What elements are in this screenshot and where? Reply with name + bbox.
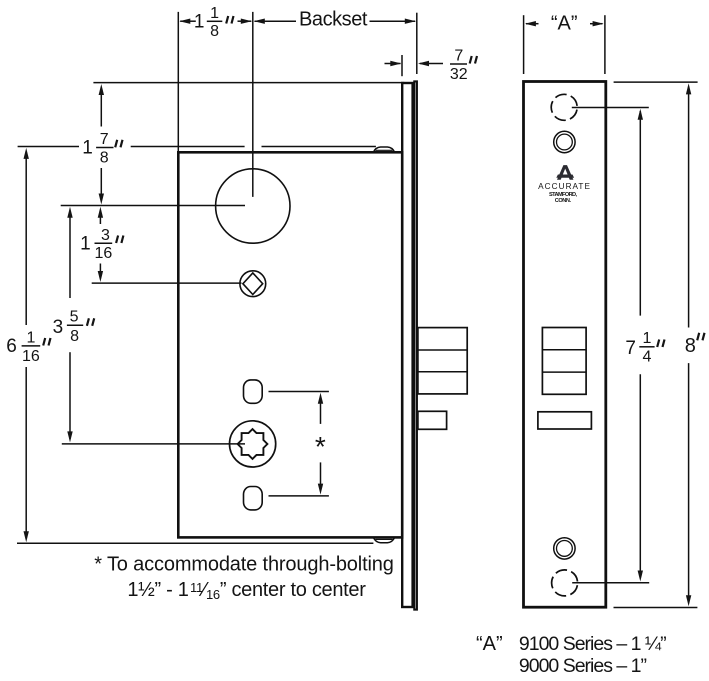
bottom mounting screw (broken circle) [552,570,578,596]
spindle hub circle [240,271,266,297]
svg-text:8: 8 [210,23,219,40]
thumbturn centerline leader [62,443,245,445]
svg-text:Backset: Backset [299,8,368,30]
svg-text:* To accommodate through-bolti: * To accommodate through-bolting [94,554,393,576]
6 1/16 dimension line upper segment [25,152,27,326]
dim text 7 1/4 inch mark [657,340,664,348]
8in top reference [614,81,698,83]
7/32 right arrow [418,61,429,66]
deadbolt front band line 2 [542,371,586,373]
dim text 7/32 inch mark [470,56,477,64]
3 5/8 dimension line lower segment [69,352,71,439]
svg-text:9100 Series – 1 ¼”: 9100 Series – 1 ¼” [519,633,666,655]
svg-text:5: 5 [70,309,79,326]
3 5/8 down arrow [67,431,72,442]
8 up arrow [686,83,691,94]
thumbturn hub circle [230,421,276,467]
1 7/8 fraction bar [96,147,113,149]
bottom cover line [17,542,373,544]
3 5/8 up arrow [67,207,72,218]
svg-text:CONN.: CONN. [555,198,572,204]
svg-text:6: 6 [6,336,17,357]
svg-text:8: 8 [70,328,79,345]
dim text 1 7/8 inch mark [115,140,122,148]
8in bottom reference [614,607,698,609]
upper oval leader [269,391,329,393]
upper through-bolt oval [244,380,263,403]
top screw dome chord [375,149,392,151]
1 1/8 fraction bar [207,20,223,22]
svg-text:16: 16 [22,348,40,365]
top cover line mid segment [131,146,245,148]
dim text 3 5/8 inch mark [87,318,94,326]
8-point star hub (two overlapped squares) [238,429,268,459]
7/32 extension tick outer [416,13,418,74]
top cylinder screw inner circle [557,134,573,150]
spindle square (diamond) [243,273,263,295]
asterisk up arrow [318,393,323,404]
backset centerline [252,12,254,197]
cylinder centerline leader [61,205,245,207]
backset right arrow [405,19,416,24]
6 1/16 up arrow [24,148,29,159]
A dimension right arrow shaft [590,23,603,25]
top cylinder screw outer circle [554,131,575,152]
top cover line right segment [262,146,376,148]
dim text 6 1/16 inch mark [43,338,50,346]
svg-text:1: 1 [210,5,219,22]
8 down arrow [686,595,691,606]
dim text 8 inch mark [697,333,704,341]
auxiliary latch (front view) [538,412,592,429]
svg-text:“A”: “A” [551,12,578,34]
7/32 fraction bar [450,63,467,65]
svg-text:1: 1 [642,330,651,347]
1 1/8 dimension line right shaft [238,20,252,22]
dim text 1 1/8 inch mark [226,16,233,24]
7 1/4 dimension line upper segment [639,111,641,316]
deadbolt edge band line 2 [418,371,467,373]
svg-text:8: 8 [685,335,696,357]
backset left arrow [254,19,265,24]
svg-text:“A”: “A” [476,633,503,655]
bottom screw dome [373,538,394,543]
svg-text:1½” - 1 11⁄16” center to cente: 1½” - 1 11⁄16” center to center [127,579,366,602]
svg-text:1: 1 [80,233,91,254]
7 1/4 dimension line lower segment [639,374,641,577]
1 3/16 up arrow shaft [99,211,101,225]
lock front inner strip [402,83,412,607]
svg-text:7: 7 [625,338,636,359]
3 5/8 fraction bar [67,324,83,326]
7 1/4 down arrow [638,571,643,582]
6 1/16 fraction bar [22,345,41,347]
bottom screw leader [572,582,649,584]
case left edge extension line [177,12,179,152]
A left arrow [525,21,536,26]
faceplate plate [524,82,606,608]
asterisk dimension lower shaft [320,462,322,490]
7/32 left arrow [390,61,401,66]
1 7/8 down arrow shaft [100,168,102,201]
deadbolt (front view) [542,328,586,395]
top screw leader [572,107,649,109]
deadbolt (edge view) [418,328,467,394]
1 3/16 up arrow [98,207,103,218]
case body rectangle [178,152,402,537]
backset dimension left shaft [255,20,297,22]
bottom cylinder screw outer circle [554,538,575,559]
1 7/8 down arrow [99,194,104,205]
1 1/8 left arrow [179,19,190,24]
7 1/4 fraction bar [639,346,654,348]
svg-text:32: 32 [450,66,468,83]
svg-text:4: 4 [642,348,651,365]
top screw dome [373,147,394,152]
top cover line left segment [18,146,79,148]
logo A mark crossbar [556,175,574,178]
auxiliary latch (edge view) [418,411,447,429]
7/32 right arrow shaft [420,63,443,65]
svg-text:9000 Series – 1”: 9000 Series – 1” [519,655,647,677]
7 1/4 up arrow [638,109,643,120]
8 dimension line upper segment [688,87,690,328]
7/32 left arrow shaft [385,63,401,65]
deadbolt front band line 1 [542,349,586,351]
svg-text:8: 8 [100,149,109,166]
1 7/8 up arrow shaft [100,89,102,127]
8 dimension line lower segment [688,363,690,602]
6 1/16 dimension line lower segment [25,367,27,539]
bottom cylinder screw inner circle [557,541,573,557]
spindle centerline leader [92,282,242,284]
dim text 1 3/16 inch mark [116,236,123,244]
faceplate outer strip (edge view) [414,81,417,609]
7/32 extension tick inner [401,55,403,76]
1 3/16 down arrow [98,271,103,282]
lower oval leader [269,495,329,497]
svg-text:*: * [315,431,326,462]
cylinder hole [216,169,290,243]
A dimension left arrow shaft [526,23,539,25]
top mounting screw (broken circle) [551,94,577,120]
svg-text:3: 3 [101,227,110,244]
1 1/8 right arrow [241,19,252,24]
backset dimension right shaft [370,20,416,22]
1 7/8 up arrow [99,84,104,95]
3 5/8 dimension line upper segment [69,211,71,299]
A dimension right tick [604,15,606,74]
deadbolt edge band line 1 [418,349,467,351]
asterisk down arrow [318,484,323,495]
svg-text:16: 16 [95,245,113,262]
logo A mark glyph [557,165,573,180]
svg-text:7: 7 [454,48,463,65]
1 1/8 dimension line left shaft [180,20,196,22]
asterisk dimension upper shaft [320,397,322,424]
1 3/16 fraction bar [95,242,113,244]
svg-text:1: 1 [82,138,93,159]
bottom screw dome chord [375,538,392,540]
svg-text:1: 1 [26,330,35,347]
6 1/16 down arrow [24,531,29,542]
svg-text:1: 1 [194,12,205,33]
faceplate top extension line [93,82,404,84]
A right arrow [593,21,604,26]
svg-text:3: 3 [53,317,64,338]
1 3/16 down arrow shaft [99,264,101,279]
svg-text:ACCURATE: ACCURATE [538,182,591,191]
svg-text:7: 7 [100,131,109,148]
A dimension left tick [523,15,525,74]
lower through-bolt oval [244,487,263,510]
